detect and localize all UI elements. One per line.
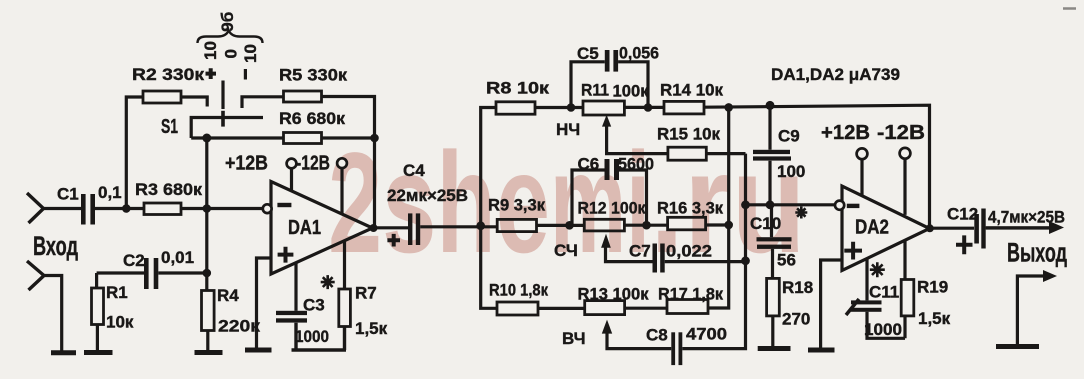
svg-text:R1: R1	[106, 283, 128, 302]
svg-text:R19: R19	[917, 278, 948, 297]
svg-text:1,5к: 1,5к	[918, 309, 951, 328]
svg-text:4700: 4700	[686, 325, 727, 344]
svg-text:R4: R4	[217, 286, 239, 305]
svg-text:S1: S1	[161, 116, 178, 138]
svg-text:0,056: 0,056	[619, 44, 659, 63]
svg-text:+12В: +12В	[821, 122, 870, 144]
svg-text:C9: C9	[778, 127, 800, 146]
svg-text:22мк×25В: 22мк×25В	[387, 186, 468, 205]
svg-text:5600: 5600	[618, 155, 654, 174]
svg-text:1000: 1000	[295, 327, 329, 346]
svg-text:R3 680к: R3 680к	[135, 180, 203, 199]
svg-text:C8: C8	[646, 326, 668, 345]
svg-text:R10 1,8к: R10 1,8к	[489, 281, 548, 300]
svg-text:+12В: +12В	[225, 153, 268, 175]
svg-text:220к: 220к	[218, 317, 261, 336]
svg-text:R6 680к: R6 680к	[279, 109, 346, 128]
svg-text:4,7мк×25В: 4,7мк×25В	[988, 208, 1065, 227]
svg-text:R16 3,3к: R16 3,3к	[657, 199, 723, 218]
svg-text:10: 10	[201, 41, 220, 60]
svg-text:C11: C11	[869, 283, 899, 302]
svg-text:C12: C12	[947, 205, 978, 224]
svg-text:56: 56	[777, 251, 796, 270]
svg-text:R12 100к: R12 100к	[578, 199, 646, 218]
svg-text:C3: C3	[303, 296, 325, 315]
svg-text:1000: 1000	[864, 320, 902, 339]
svg-text:C10: C10	[750, 214, 781, 233]
svg-text:100к: 100к	[613, 82, 649, 101]
svg-text:C1: C1	[57, 185, 79, 204]
svg-text:R13 100к: R13 100к	[578, 285, 649, 304]
svg-text:0: 0	[222, 49, 241, 58]
svg-text:9б: 9б	[218, 12, 237, 32]
svg-text:C7: C7	[629, 242, 651, 261]
svg-text:10: 10	[241, 44, 260, 63]
svg-text:C4: C4	[403, 161, 425, 180]
svg-text:DA1,DA2 μA739: DA1,DA2 μA739	[771, 65, 900, 84]
svg-text:R14 10к: R14 10к	[660, 81, 723, 100]
svg-text:R8 10к: R8 10к	[486, 79, 550, 98]
svg-text:270: 270	[782, 310, 810, 329]
svg-text:R5 330к: R5 330к	[279, 66, 348, 85]
svg-text:Вход: Вход	[33, 231, 78, 261]
svg-text:DA1: DA1	[288, 217, 321, 239]
svg-text:R7: R7	[355, 284, 377, 303]
svg-text:-12В: -12В	[877, 122, 925, 144]
svg-text:ВЧ: ВЧ	[562, 329, 586, 348]
svg-text:C2: C2	[123, 251, 145, 270]
svg-text:Выход: Выход	[1007, 238, 1067, 268]
svg-text:R15 10к: R15 10к	[657, 125, 720, 144]
svg-text:-12В: -12В	[296, 153, 330, 175]
svg-text:DA2: DA2	[855, 217, 889, 239]
svg-text:100: 100	[777, 162, 805, 181]
svg-text:СЧ: СЧ	[554, 241, 578, 260]
svg-text:C5: C5	[577, 44, 599, 63]
svg-text:0,022: 0,022	[666, 242, 712, 261]
svg-text:0,01: 0,01	[161, 248, 194, 267]
svg-text:НЧ: НЧ	[556, 120, 580, 139]
svg-text:10к: 10к	[106, 313, 134, 332]
svg-text:R2 330к: R2 330к	[132, 65, 205, 84]
svg-text:1,5к: 1,5к	[355, 319, 388, 338]
svg-text:R11: R11	[581, 81, 609, 100]
svg-text:R9 3,3к: R9 3,3к	[488, 196, 545, 215]
svg-text:0,1: 0,1	[98, 183, 122, 202]
svg-text:R17 1,8к: R17 1,8к	[658, 285, 723, 304]
svg-text:C6: C6	[578, 155, 600, 174]
svg-text:R18: R18	[782, 278, 813, 297]
